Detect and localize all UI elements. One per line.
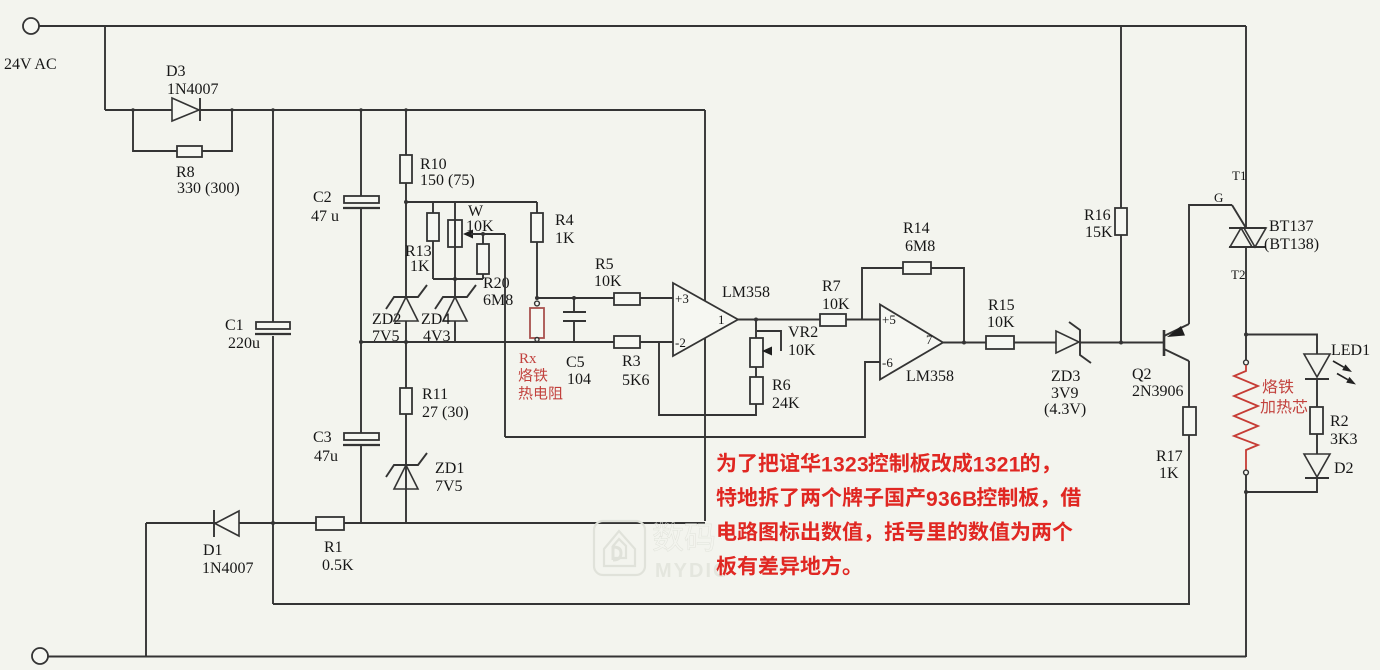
- resistor R5: [594, 256, 640, 305]
- wire R17 to rail y604: [1188, 435, 1190, 604]
- svg-text:Rx: Rx: [519, 351, 537, 367]
- node VR2 top: [754, 318, 758, 322]
- svg-text:G: G: [1214, 190, 1223, 205]
- svg-text:1K: 1K: [410, 258, 430, 275]
- resistor R8: [176, 146, 240, 197]
- node R10-ZD2: [404, 200, 408, 204]
- wire bottom tie R13-R20: [433, 278, 483, 280]
- node C5 top: [572, 296, 576, 300]
- red annotation paragraph: [717, 453, 735, 473]
- node C1 top: [271, 108, 274, 111]
- wire rail y523: [146, 522, 705, 524]
- wire ZD2 anode: [405, 321, 407, 342]
- node LED branch: [1244, 333, 1248, 337]
- wire R2 to D2: [1316, 434, 1318, 454]
- resistor R13: [405, 213, 439, 275]
- diode D3: [166, 63, 219, 121]
- connector pin above Rx: [535, 301, 540, 306]
- svg-text:D1: D1: [203, 542, 223, 559]
- wire pot vertical: [454, 202, 456, 297]
- svg-text:15K: 15K: [1085, 224, 1113, 241]
- resistor R1: [316, 517, 354, 574]
- svg-text:LED1: LED1: [1331, 342, 1370, 359]
- node D3 bypass right: [230, 108, 233, 111]
- svg-text:24K: 24K: [772, 395, 800, 412]
- resistor R7: [820, 278, 850, 326]
- diode D1: [202, 510, 254, 577]
- svg-text:C2: C2: [313, 189, 332, 206]
- wire Q2 emitter to gate: [1189, 205, 1232, 324]
- svg-text:ZD4: ZD4: [421, 311, 450, 328]
- svg-text:R15: R15: [988, 297, 1015, 314]
- svg-text:1N4007: 1N4007: [202, 560, 254, 577]
- node ZD2-rail: [404, 340, 408, 344]
- wire heater bottom to rail: [1245, 475, 1247, 657]
- zener ZD1: [386, 453, 464, 495]
- capacitor C1: [225, 317, 291, 352]
- node D3 bypass left: [131, 108, 134, 111]
- wire rail y342: [361, 341, 673, 343]
- capacitor C3: [313, 429, 380, 465]
- wire gate diagonal to triac: [1232, 205, 1246, 228]
- wire C1 branch lower: [272, 336, 274, 604]
- wire top rail: [39, 25, 1246, 27]
- svg-text:3K3: 3K3: [1330, 431, 1358, 448]
- wiper arrow of pot: [463, 230, 505, 239]
- wire R8 bypass loop: [133, 110, 232, 151]
- svg-text:10K: 10K: [987, 314, 1015, 331]
- connector pin heater top: [1244, 360, 1249, 365]
- wire R16 vertical: [1120, 26, 1122, 343]
- op-amp U1B LM358: [880, 305, 954, 386]
- transistor Q2 2N3906: [1132, 324, 1189, 400]
- svg-text:R16: R16: [1084, 207, 1111, 224]
- node C2C3-rail: [359, 340, 363, 344]
- wire mid-bottom rail y604: [273, 603, 1190, 605]
- capacitor C5: [563, 298, 591, 388]
- resistor R16: [1084, 207, 1127, 241]
- svg-text:LM358: LM358: [722, 284, 770, 301]
- node wiper-R20: [481, 232, 485, 236]
- wire triac T2 down: [1245, 247, 1247, 360]
- resistor R20: [477, 234, 513, 309]
- node C1-rail523: [271, 521, 275, 525]
- capacitor C2: [311, 189, 380, 225]
- svg-text:10K: 10K: [594, 273, 622, 290]
- svg-text:10K: 10K: [788, 342, 816, 359]
- wire wiper drop x505: [504, 234, 506, 437]
- svg-text:10K: 10K: [822, 296, 850, 313]
- svg-text:R1: R1: [324, 539, 343, 556]
- svg-text:T2: T2: [1231, 267, 1245, 282]
- svg-text:330 (300): 330 (300): [177, 180, 240, 197]
- svg-text:47 u: 47 u: [311, 208, 339, 225]
- wire bottom rail: [48, 656, 1246, 658]
- svg-text:27 (30): 27 (30): [422, 404, 469, 421]
- wire rail y202: [406, 201, 537, 203]
- node heater-LED bottom: [1244, 490, 1248, 494]
- svg-text:R3: R3: [622, 353, 641, 370]
- wire R14 loop: [862, 268, 903, 320]
- svg-text:D2: D2: [1334, 460, 1354, 477]
- wire LED branch top: [1246, 335, 1317, 355]
- watermark logo: [594, 521, 645, 575]
- wire R13 branch: [432, 202, 434, 279]
- svg-text:Q2: Q2: [1132, 366, 1152, 383]
- node C2 top: [359, 108, 362, 111]
- resistor R17: [1156, 407, 1196, 482]
- wire Q2 collector down: [1188, 361, 1190, 407]
- svg-text:R7: R7: [822, 278, 841, 295]
- svg-text:BT137: BT137: [1269, 218, 1313, 235]
- svg-text:(4.3V): (4.3V): [1044, 401, 1086, 418]
- svg-text:150 (75): 150 (75): [420, 172, 475, 189]
- svg-text:24V AC: 24V AC: [4, 56, 57, 73]
- wire LED to R2: [1316, 379, 1318, 407]
- wire rail y437 to op2 inverting: [505, 362, 880, 437]
- wire D1 branch up: [145, 523, 147, 657]
- svg-text:R6: R6: [772, 377, 791, 394]
- svg-text:LM358: LM358: [906, 368, 954, 385]
- wire op2 output: [943, 342, 986, 344]
- svg-text:VR2: VR2: [788, 324, 818, 341]
- zener ZD4: [421, 285, 476, 345]
- terminal top-left 24V AC: [23, 18, 39, 34]
- wire C3 to rail: [360, 445, 362, 523]
- zener ZD2: [372, 285, 427, 345]
- svg-text:1: 1: [718, 312, 725, 327]
- terminal bottom-left: [32, 648, 48, 664]
- wire feedback loop R6: [659, 342, 756, 415]
- svg-text:+3: +3: [675, 291, 689, 306]
- wire R10 vertical: [405, 110, 407, 297]
- svg-text:R17: R17: [1156, 448, 1183, 465]
- triac BT137: [1229, 26, 1319, 282]
- svg-text:R2: R2: [1330, 413, 1349, 430]
- wire R15 to ZD3: [1014, 342, 1056, 344]
- svg-text:1N4007: 1N4007: [167, 81, 219, 98]
- wire R4 vertical: [536, 202, 538, 298]
- svg-text:3V9: 3V9: [1051, 385, 1079, 402]
- node R10 top: [404, 108, 407, 111]
- node pot bottom junction: [453, 277, 457, 281]
- node output-R14: [962, 341, 966, 345]
- svg-text:C3: C3: [313, 429, 332, 446]
- svg-text:T1: T1: [1232, 168, 1246, 183]
- svg-text:R10: R10: [420, 156, 447, 173]
- wire R7 to op2: [846, 319, 880, 321]
- zener ZD3: [1044, 322, 1091, 418]
- svg-text:1K: 1K: [555, 230, 575, 247]
- wire C2 branch upper: [360, 110, 362, 196]
- svg-text:ZD3: ZD3: [1051, 368, 1080, 385]
- wire C1 branch upper: [272, 110, 274, 322]
- resistor R15: [986, 297, 1015, 349]
- svg-text:1323: 1323: [821, 454, 869, 477]
- svg-text:7V5: 7V5: [435, 478, 463, 495]
- svg-text:47u: 47u: [314, 448, 338, 465]
- resistor R10: [400, 155, 475, 189]
- svg-text:220u: 220u: [228, 335, 260, 352]
- svg-text:R5: R5: [595, 256, 614, 273]
- svg-text:1321: 1321: [973, 454, 1021, 477]
- op-amp U1A LM358: [673, 283, 770, 356]
- svg-text:+5: +5: [882, 312, 896, 327]
- svg-text:7: 7: [926, 332, 933, 347]
- svg-text:-2: -2: [675, 335, 686, 350]
- svg-text:-6: -6: [882, 355, 893, 370]
- svg-text:0.5K: 0.5K: [322, 557, 354, 574]
- diode D2: [1304, 454, 1354, 478]
- svg-text:(BT138): (BT138): [1264, 236, 1319, 253]
- svg-text:R8: R8: [176, 164, 195, 181]
- wire op1 output: [738, 319, 820, 321]
- svg-text:5K6: 5K6: [622, 372, 650, 389]
- svg-text:104: 104: [567, 371, 591, 388]
- wire x705 vertical: [704, 110, 706, 521]
- resistor R6: [750, 377, 800, 412]
- svg-text:6M8: 6M8: [483, 292, 513, 309]
- svg-text:R11: R11: [422, 386, 448, 403]
- wire D2 to heater bottom: [1246, 478, 1317, 492]
- svg-text:R14: R14: [903, 220, 930, 237]
- resistor R4: [531, 212, 575, 247]
- wire ZD3 to Q2 base: [1080, 342, 1164, 344]
- thermistor Rx (red): [530, 308, 544, 342]
- resistor R11: [400, 386, 469, 421]
- label Rx thermistor Chinese (red): [519, 368, 533, 382]
- label heater Chinese (red): [1263, 379, 1278, 394]
- svg-text:D3: D3: [166, 63, 186, 80]
- connector pin below Rx: [535, 338, 539, 342]
- wire R11 vertical: [405, 342, 407, 523]
- wire second rail: [105, 109, 705, 111]
- resistor R2: [1310, 407, 1358, 448]
- heater element (red zigzag): [1234, 365, 1258, 470]
- svg-text:ZD1: ZD1: [435, 460, 464, 477]
- svg-text:ZD2: ZD2: [372, 311, 401, 328]
- svg-text:R4: R4: [555, 212, 574, 229]
- svg-text:1K: 1K: [1159, 465, 1179, 482]
- wire C2-C3 vertical: [360, 208, 362, 433]
- wire plus3 input rail: [537, 297, 673, 299]
- connector pin heater bottom: [1244, 470, 1249, 475]
- resistor R3: [614, 336, 650, 389]
- svg-text:6M8: 6M8: [905, 238, 935, 255]
- svg-text:C1: C1: [225, 317, 244, 334]
- resistor R14: [903, 220, 935, 274]
- wire ZD4 anode: [454, 321, 456, 342]
- svg-text:936B: 936B: [926, 488, 977, 511]
- node Rx top junction: [535, 296, 539, 300]
- potentiometer W 10K: [448, 203, 494, 247]
- LED LED1: [1304, 342, 1370, 385]
- node R16 bottom: [1119, 341, 1123, 345]
- svg-text:2N3906: 2N3906: [1132, 383, 1184, 400]
- potentiometer VR2: [750, 320, 818, 378]
- svg-text:C5: C5: [566, 354, 585, 371]
- wire drop to second rail: [104, 26, 106, 110]
